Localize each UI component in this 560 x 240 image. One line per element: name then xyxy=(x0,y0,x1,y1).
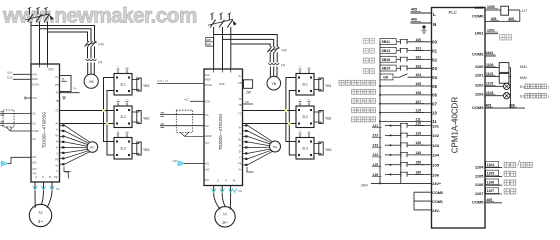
indicator lamp E1 output 1102 xyxy=(485,82,549,90)
svg-text:110: 110 xyxy=(416,109,422,113)
wire N power xyxy=(411,18,438,28)
indicator lamp E2 output 1103 xyxy=(485,91,549,99)
wire branch to brake circuit xyxy=(31,26,95,42)
shielded analog cable (left, dashed) xyxy=(0,110,31,131)
relay coil KM2 output 1101 xyxy=(485,72,527,83)
svg-text:PE: PE xyxy=(54,175,58,179)
relay contact 2J2 input 101 xyxy=(372,131,432,137)
rectifier ZL4 + brake resistor YB4 (middle) xyxy=(296,65,332,95)
svg-text:V-: V- xyxy=(56,169,59,173)
svg-text:TC: TC xyxy=(55,108,59,112)
wire COM2 stub xyxy=(485,51,496,56)
wire 24V+ xyxy=(361,182,432,187)
wire input 05 xyxy=(379,82,432,87)
analog annotation arrow (cyan, middle) xyxy=(173,159,204,166)
thermal overload FR (middle) xyxy=(268,63,286,68)
svg-text:PE: PE xyxy=(55,158,59,162)
svg-text:4-05 1-10: 4-05 1-10 xyxy=(157,79,169,83)
svg-text:A-: A- xyxy=(239,132,242,136)
svg-text:~: ~ xyxy=(299,65,301,69)
rectifier ZL5 + brake resistor YB5 (middle) xyxy=(296,98,332,128)
svg-text:2J5: 2J5 xyxy=(373,163,379,167)
wire inverter U2 to motor M2 xyxy=(214,186,231,210)
circuit breaker QF2 xyxy=(208,13,237,28)
wire number box 405/406 xyxy=(206,38,214,47)
terminal stub X1 (middle) xyxy=(184,98,204,102)
wire inverter row to ZL2 xyxy=(60,111,115,124)
svg-text:3~: 3~ xyxy=(222,220,228,226)
svg-text:~: ~ xyxy=(117,65,119,69)
motor M2 xyxy=(215,207,235,227)
svg-text:PE: PE xyxy=(239,189,243,193)
svg-text:COM0: COM0 xyxy=(472,13,484,18)
pushbutton SB16 input 02 xyxy=(380,56,432,63)
shielded analog cable (middle, dashed) xyxy=(160,110,204,136)
svg-text:TB: TB xyxy=(238,103,242,107)
svg-text:ZL1: ZL1 xyxy=(302,83,308,87)
contactor KM contact (left brake) xyxy=(85,41,104,47)
wire 3-phase to inverter U2 xyxy=(214,27,231,69)
braking resistor box (middle) xyxy=(243,80,253,95)
cable arrows (cyan) U1 output xyxy=(33,186,60,191)
svg-text:Z+: Z+ xyxy=(56,146,60,150)
PLC CPM1A-40CDR body xyxy=(432,8,486,229)
wire contact to overload xyxy=(88,47,95,59)
svg-text:—: — xyxy=(308,129,311,133)
svg-text:1105: 1105 xyxy=(7,76,13,80)
svg-text:AI1: AI1 xyxy=(205,162,210,166)
wire output 1001 (lower) xyxy=(485,29,512,41)
relay contact 2J5 input 104 xyxy=(372,161,432,167)
limit switch GK input 04 xyxy=(380,73,432,80)
svg-text:SB13: SB13 xyxy=(382,49,391,53)
label close inverter fault xyxy=(352,108,376,113)
svg-text:REV: REV xyxy=(205,78,211,82)
motor M1 xyxy=(29,204,51,226)
svg-text:Z-: Z- xyxy=(56,152,59,156)
earth terminal xyxy=(421,25,427,34)
svg-text:PG: PG xyxy=(90,146,95,150)
svg-text:ZL: ZL xyxy=(62,78,66,82)
thermal overload FR (left) xyxy=(86,59,103,65)
svg-text:DCM: DCM xyxy=(32,83,39,87)
svg-text:A+: A+ xyxy=(55,122,59,126)
svg-text:120: 120 xyxy=(416,131,422,135)
label shangsheng (raise) xyxy=(363,38,374,43)
svg-text:~: ~ xyxy=(117,98,119,102)
svg-text:X1: X1 xyxy=(205,113,209,117)
wire output 1106 xyxy=(485,179,516,185)
svg-text:YB1: YB1 xyxy=(325,84,332,88)
label diaohe (close) xyxy=(363,69,374,74)
svg-text:104: 104 xyxy=(416,73,422,77)
svg-text:FR: FR xyxy=(98,61,103,65)
svg-text:103: 103 xyxy=(432,143,439,148)
svg-text:KM2: KM2 xyxy=(520,76,527,80)
svg-text:10: 10 xyxy=(432,110,437,115)
svg-text:COM5: COM5 xyxy=(472,200,484,205)
svg-text:24V+: 24V+ xyxy=(361,184,369,188)
svg-text:04: 04 xyxy=(432,75,437,80)
svg-text:405: 405 xyxy=(173,159,178,163)
braking unit box (left) xyxy=(60,76,80,100)
inverter U1 TD3000 (left) xyxy=(31,64,60,182)
svg-text:107: 107 xyxy=(416,100,422,104)
svg-text:101: 101 xyxy=(432,123,439,128)
svg-text:KM: KM xyxy=(99,43,104,47)
svg-text:PG: PG xyxy=(273,145,278,149)
svg-text:COM2: COM2 xyxy=(472,51,484,56)
svg-text:130: 130 xyxy=(416,141,422,145)
svg-text:V+: V+ xyxy=(238,168,242,172)
svg-text:V: V xyxy=(42,175,44,179)
label main inverter fault xyxy=(352,89,376,94)
svg-text:YB2: YB2 xyxy=(143,117,150,121)
svg-text:DCM: DCM xyxy=(205,83,212,87)
svg-text:COM1: COM1 xyxy=(432,200,443,204)
svg-text:~: ~ xyxy=(299,129,301,133)
terminal CM tick xyxy=(25,97,31,100)
brake motor YB (middle) xyxy=(267,76,281,90)
pushbutton SB11 input 00 xyxy=(380,38,432,45)
svg-text:3~: 3~ xyxy=(38,219,44,225)
svg-text:GK: GK xyxy=(383,76,389,80)
svg-text:1104: 1104 xyxy=(7,71,13,75)
svg-text:110: 110 xyxy=(416,122,422,126)
wire inverter U1 to motor M1 xyxy=(35,182,52,208)
svg-text:2W: 2W xyxy=(246,91,251,95)
wire inverter row to ZL5 (middle) xyxy=(243,111,297,124)
svg-text:GND: GND xyxy=(32,129,38,133)
svg-text:M: M xyxy=(223,211,227,217)
svg-text:1106: 1106 xyxy=(487,180,494,184)
svg-text:PB: PB xyxy=(55,83,59,87)
svg-text:405: 405 xyxy=(411,8,417,12)
svg-text:PE: PE xyxy=(56,187,60,191)
junction dots (yellow, middle) xyxy=(285,109,291,125)
brake motor YB (left) xyxy=(84,74,98,88)
svg-text:150: 150 xyxy=(416,161,422,165)
svg-text:YB: YB xyxy=(89,80,94,84)
inverter U2 pin labels xyxy=(204,73,243,183)
svg-text:YB2: YB2 xyxy=(325,117,332,121)
wire COM0 return xyxy=(485,17,520,22)
svg-text:YB3: YB3 xyxy=(325,148,332,152)
svg-text:U: U xyxy=(217,179,219,183)
svg-text:405: 405 xyxy=(207,38,212,42)
svg-text:406: 406 xyxy=(207,42,212,46)
svg-text:V+: V+ xyxy=(55,164,59,168)
svg-text:106: 106 xyxy=(416,91,422,95)
label dakai (open) xyxy=(363,58,374,63)
svg-text:1000: 1000 xyxy=(475,5,485,10)
cable arrows (cyan) U2 output xyxy=(212,189,243,194)
svg-text:Z-: Z- xyxy=(239,156,242,160)
wire COM4 xyxy=(485,104,525,109)
rectifier ZL6 + brake resistor YB6 (middle) xyxy=(296,129,332,159)
svg-text:ZL2: ZL2 xyxy=(302,115,308,119)
svg-text:B-: B- xyxy=(239,144,242,148)
encoder cable PG (middle) xyxy=(243,124,281,172)
svg-text:AI2: AI2 xyxy=(205,168,210,172)
wire 3-phase to inverter U1 xyxy=(31,22,48,65)
svg-text:A+: A+ xyxy=(238,126,242,130)
svg-text:GND: GND xyxy=(205,134,211,138)
svg-text:2J1: 2J1 xyxy=(373,124,379,128)
analog input annotation arrow (cyan) xyxy=(1,157,31,166)
svg-text:TB: TB xyxy=(55,99,59,103)
svg-text:TC: TC xyxy=(238,112,242,116)
svg-text:—: — xyxy=(308,65,311,69)
svg-text:SB15: SB15 xyxy=(382,67,391,71)
wire output 1105 xyxy=(485,170,516,176)
output common bus xyxy=(510,68,512,109)
svg-text:102: 102 xyxy=(432,133,439,138)
svg-text:L: L xyxy=(433,12,436,17)
svg-text:X3: X3 xyxy=(205,141,209,145)
svg-text:~: ~ xyxy=(117,129,119,133)
svg-text:ZL3: ZL3 xyxy=(120,147,126,151)
label main inverter run xyxy=(352,99,376,104)
svg-text:06: 06 xyxy=(432,93,437,98)
svg-text:CM: CM xyxy=(32,96,37,100)
svg-text:102: 102 xyxy=(416,56,422,60)
pushbutton SB13 input 01 xyxy=(380,47,432,54)
svg-text:405: 405 xyxy=(245,100,250,104)
inverter U2 TD3000 (middle) xyxy=(204,69,243,186)
wire overload to brake YB xyxy=(88,63,95,75)
svg-text:YB: YB xyxy=(271,82,276,86)
svg-text:2J6: 2J6 xyxy=(373,173,379,177)
svg-text:—: — xyxy=(126,129,129,133)
wire input 10 xyxy=(379,109,432,114)
svg-text:B+: B+ xyxy=(55,134,59,138)
svg-text:1104: 1104 xyxy=(475,165,484,170)
svg-text:ZL2: ZL2 xyxy=(120,115,126,119)
svg-text:1107: 1107 xyxy=(475,191,484,196)
svg-text:X3: X3 xyxy=(32,137,36,141)
svg-text:412: 412 xyxy=(184,98,189,102)
svg-text:3PE: 3PE xyxy=(48,68,54,72)
svg-text:REV: REV xyxy=(32,77,38,81)
svg-text:00: 00 xyxy=(432,40,437,45)
svg-text:1106: 1106 xyxy=(475,182,484,187)
svg-text:AI1: AI1 xyxy=(32,155,37,159)
svg-text:1J7: 1J7 xyxy=(522,9,528,13)
svg-text:Z+: Z+ xyxy=(238,150,242,154)
svg-text:07: 07 xyxy=(432,102,437,107)
svg-text:COM4: COM4 xyxy=(472,105,484,110)
wire FW input xyxy=(7,71,31,75)
svg-text:FA: FA xyxy=(33,172,37,176)
svg-text:1103: 1103 xyxy=(475,91,484,96)
svg-text:1101: 1101 xyxy=(475,73,484,78)
rectifier ZL2 + brake resistor YB2 (left) xyxy=(114,98,150,128)
label close inverter run xyxy=(352,117,376,122)
svg-text:1105: 1105 xyxy=(475,173,484,178)
svg-text:101: 101 xyxy=(416,47,422,51)
svg-text:P+: P+ xyxy=(74,87,78,91)
svg-text:P+: P+ xyxy=(55,75,59,79)
wire contact to overload (middle) xyxy=(270,52,277,62)
svg-text:V: V xyxy=(225,179,227,183)
wire input 06 xyxy=(379,91,432,96)
svg-text:PLC: PLC xyxy=(449,10,457,15)
rectifier ZL3 + brake resistor YB3 (left) xyxy=(114,129,150,159)
svg-text:KM: KM xyxy=(282,49,287,53)
input common bus 24V xyxy=(379,42,381,184)
svg-text:GN: GN xyxy=(32,167,36,171)
PLC input terminal numbers xyxy=(432,40,443,213)
inverter U1 pin labels xyxy=(31,72,60,179)
ground bracket at U1 bottom-right xyxy=(65,172,69,178)
svg-text:106: 106 xyxy=(432,172,439,177)
junction dots (yellow) xyxy=(102,109,108,125)
svg-text:—: — xyxy=(126,65,129,69)
svg-text:01: 01 xyxy=(432,48,437,53)
svg-text:103: 103 xyxy=(416,64,422,68)
svg-text:2J4: 2J4 xyxy=(373,153,379,157)
svg-text:FW: FW xyxy=(32,72,37,76)
pushbutton SB15 input 03 xyxy=(380,64,432,71)
svg-text:24V-: 24V- xyxy=(432,209,440,213)
wire output 1107 xyxy=(485,188,516,194)
svg-text:24V+: 24V+ xyxy=(432,182,441,186)
wire COM5 xyxy=(485,198,502,203)
svg-text:M: M xyxy=(39,210,43,216)
svg-text:P+: P+ xyxy=(238,74,242,78)
relay contact 2J3 input 102 xyxy=(372,141,432,147)
svg-text:AI2: AI2 xyxy=(32,161,37,165)
label switch raise permit xyxy=(339,80,376,85)
svg-text:2J2: 2J2 xyxy=(373,134,379,138)
svg-text:104: 104 xyxy=(432,153,439,158)
wire bus to rectifiers (middle) xyxy=(286,78,296,156)
svg-text:PB: PB xyxy=(238,81,242,85)
svg-text:): ) xyxy=(548,94,549,98)
svg-text:105: 105 xyxy=(416,82,422,86)
svg-text:TA: TA xyxy=(238,97,241,101)
svg-text:X2: X2 xyxy=(205,124,209,128)
svg-text:X2: X2 xyxy=(32,122,36,126)
label xiajiang (lower) xyxy=(363,48,374,53)
svg-text:B-: B- xyxy=(56,140,59,144)
relay contact 2J1 input 100 xyxy=(372,122,432,128)
wire input 07 xyxy=(379,100,432,105)
svg-text:KM1: KM1 xyxy=(520,65,527,69)
svg-text:PE: PE xyxy=(238,162,242,166)
wire bus to rectifiers (left) xyxy=(104,78,115,156)
svg-text:3PE: 3PE xyxy=(219,82,225,86)
wire overload to brake YB (middle) xyxy=(270,67,277,78)
relay coil KM1 output 1100 xyxy=(485,63,527,73)
svg-text:02: 02 xyxy=(432,57,437,62)
svg-text:X1: X1 xyxy=(32,112,36,116)
svg-text:105: 105 xyxy=(432,163,439,168)
svg-text:2J3: 2J3 xyxy=(373,144,379,148)
svg-text:B+: B+ xyxy=(238,138,242,142)
terminal stub TB label (middle) xyxy=(243,100,254,104)
svg-text:SB16: SB16 xyxy=(382,58,391,62)
svg-text:ZL3: ZL3 xyxy=(302,147,308,151)
svg-text:1107: 1107 xyxy=(487,189,494,193)
svg-text:FW: FW xyxy=(205,73,210,77)
svg-text:03: 03 xyxy=(432,66,437,71)
svg-text:A-: A- xyxy=(56,128,59,132)
svg-text:COM0: COM0 xyxy=(432,191,443,195)
svg-text:): ) xyxy=(548,85,549,89)
svg-text:ZL1: ZL1 xyxy=(120,83,126,87)
svg-text:FR: FR xyxy=(281,64,286,68)
svg-text:160: 160 xyxy=(416,171,422,175)
encoder cable PG (left) xyxy=(60,124,98,171)
svg-text:1104: 1104 xyxy=(487,163,494,167)
svg-text:YB1: YB1 xyxy=(143,84,150,88)
wire branch to brake circuit (middle) xyxy=(214,35,278,48)
svg-text:TA: TA xyxy=(56,91,59,95)
svg-text:CM: CM xyxy=(205,100,210,104)
svg-text:TD3000—4T0220G: TD3000—4T0220G xyxy=(218,114,223,151)
svg-text:1102: 1102 xyxy=(475,82,484,87)
svg-text:05: 05 xyxy=(432,84,437,89)
relay coil 1J7 output 1000 xyxy=(485,5,527,22)
wire output 1104 xyxy=(485,160,532,168)
wire input 11 xyxy=(379,117,432,122)
contactor KM contact (middle brake) xyxy=(267,47,287,53)
svg-text:SB11: SB11 xyxy=(382,40,390,44)
svg-text:CPM1A-40CDR: CPM1A-40CDR xyxy=(451,97,460,154)
svg-text:—: — xyxy=(308,98,311,102)
svg-text:YB3: YB3 xyxy=(143,148,150,152)
relay contact 2J4 input 103 xyxy=(372,151,432,157)
circuit breaker QF1 xyxy=(26,7,54,22)
wire run/speed reference to U2 xyxy=(157,79,204,83)
svg-text:PA: PA xyxy=(205,178,209,182)
svg-text:100: 100 xyxy=(416,38,422,42)
svg-text:406: 406 xyxy=(411,18,417,22)
svg-text:—: — xyxy=(126,98,129,102)
svg-text:TD3000—4T0055G: TD3000—4T0055G xyxy=(42,112,47,149)
COM jumper bracket xyxy=(414,192,432,210)
wire L power xyxy=(411,8,437,18)
watermark www.newmaker.com xyxy=(2,4,197,27)
svg-text:~: ~ xyxy=(299,98,301,102)
wire REV input xyxy=(7,76,31,80)
svg-text:1100: 1100 xyxy=(475,64,484,69)
svg-text:140: 140 xyxy=(416,151,422,155)
svg-text:1105: 1105 xyxy=(487,172,494,176)
svg-text:1001: 1001 xyxy=(475,30,485,35)
PLC output terminal numbers xyxy=(472,5,484,205)
input common bus 2 (relay contacts) xyxy=(400,126,402,184)
relay contact 2J6 input 105 xyxy=(372,171,432,177)
rectifier ZL1 + brake resistor YB1 (left) xyxy=(114,65,150,95)
